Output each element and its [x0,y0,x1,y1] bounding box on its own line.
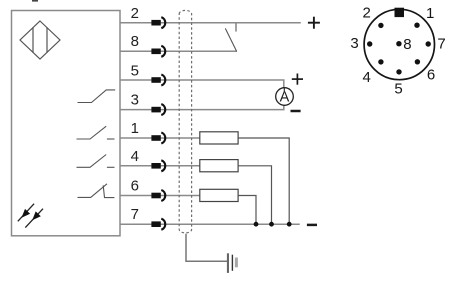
pin 5 label [131,62,139,79]
svg-text:8: 8 [131,33,139,50]
wire pin 1 to load resistor [120,137,200,139]
connector pin 1 label [426,5,434,22]
pin 1 label [131,120,139,137]
pin 6 label [131,178,139,195]
connector pin 7 dot [426,41,431,46]
plug contact pin 5 [151,75,165,86]
svg-text:5: 5 [394,80,402,97]
connector pin 1 dot [414,23,419,28]
connector pin 4 label [363,69,371,86]
wire pin 8 [120,50,237,52]
connector face outline [364,9,434,79]
connector pin 3 label [350,35,358,52]
plug contact pin 1 [151,133,165,144]
cable sheath (dashed capsule) [179,10,191,233]
NC switch symbol (pin 6 output) [78,184,115,198]
plug contact pin 7 [151,219,165,230]
connector keying notch [395,8,405,17]
pin 3 label [131,92,139,109]
plug contact pin 8 [151,46,165,57]
connector pin 6 label [427,67,435,84]
pin 4 label [131,148,139,165]
minus terminal (bus) [307,224,317,227]
plug contact pin 6 [151,190,165,201]
shield drain wire [186,234,227,261]
wire pin 3 from ammeter [120,105,284,110]
junction dot (R3 to bus) [254,222,259,227]
connector pin 4 dot [378,59,383,64]
minus label (ammeter) [291,110,301,113]
svg-text:4: 4 [363,69,371,86]
junction dot (R2 to bus) [269,222,274,227]
connector pin 7 label [437,36,445,53]
connector pin 5 label [394,80,402,97]
svg-text:6: 6 [427,67,435,84]
junction dot (R1 to bus) [287,222,292,227]
svg-text:4: 4 [131,148,139,165]
connector pin 8 label [403,36,411,53]
connector pin 8 dot [396,41,401,46]
wire pin 4 to load resistor [120,165,200,167]
NO switch symbol (pin 4 output) [77,155,115,168]
svg-text:3: 3 [350,35,358,52]
pin 2 label [131,5,139,22]
wire pin 5 to ammeter [120,80,284,88]
plus label (ammeter) [292,74,303,85]
wire resistor R2 to bus [238,166,271,224]
connector pin 5 dot [396,69,401,74]
NO switch symbol (pin 1 output) [77,126,115,139]
load resistor R2 (pin 4) [200,160,238,172]
svg-text:3: 3 [131,92,139,109]
svg-text:8: 8 [403,36,411,53]
load resistor R3 (pin 6) [200,189,238,201]
plug contact pin 4 [151,160,165,171]
external switch contact (pin 8 to +) [225,23,236,51]
wire resistor R3 to bus [238,196,256,225]
svg-text:7: 7 [437,36,445,53]
plug contact pin 3 [151,104,165,115]
wire pin 2 to + supply [120,22,301,24]
connector pin 3 dot [367,41,372,46]
ammeter A1 [276,88,294,106]
plus terminal (supply) [308,17,320,29]
svg-text:1: 1 [426,5,434,22]
svg-text:1: 1 [131,120,139,137]
connector pin 2 dot [378,23,383,28]
pin 8 label [131,33,139,50]
svg-text:6: 6 [131,178,139,195]
rising edge output symbol [78,90,116,103]
sensor body outline [12,11,121,236]
light beam arrows [18,204,43,228]
load resistor R1 (pin 1) [200,132,238,144]
connector pin 6 dot [415,59,420,64]
plug contact pin 2 [151,17,165,28]
inductive sensor symbol (diamond) [20,21,60,59]
svg-text:2: 2 [363,5,371,22]
svg-text:7: 7 [131,206,139,223]
wire resistor R1 to bus [238,138,289,224]
svg-text:A: A [280,90,290,106]
connector pin 2 label [363,5,371,22]
wire pin 6 to load resistor [120,195,200,197]
svg-text:2: 2 [131,5,139,22]
pin 7 label [131,206,139,223]
svg-text:5: 5 [131,62,139,79]
wire pin 7 common bus [120,223,300,225]
cropped text artifact top-left [32,0,38,2]
chassis ground G1 [227,253,238,273]
